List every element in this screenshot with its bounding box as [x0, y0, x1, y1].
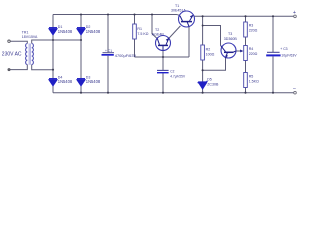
svg-text:30E451A: 30E451A [171, 8, 186, 12]
svg-text:T3: T3 [228, 32, 232, 36]
wire T2 base down to rail [162, 51, 164, 57]
wire T2 emitter to T1 base [169, 26, 181, 39]
wire C2 column upper [162, 57, 164, 70]
transistor T2 [156, 36, 171, 51]
diode D2 [77, 28, 85, 35]
svg-text:R2: R2 [206, 47, 211, 51]
svg-text:4700µF/63V: 4700µF/63V [115, 53, 137, 58]
svg-text:R5: R5 [249, 75, 254, 79]
wire AC top terminal to primary [10, 41, 27, 43]
svg-text:1.5KΩ: 1.5KΩ [249, 80, 259, 84]
svg-text:220Ω: 220Ω [249, 52, 258, 56]
wire T1 base down to rail [188, 26, 190, 57]
wire C1 column upper [107, 15, 109, 53]
svg-text:10µF/63V: 10µF/63V [281, 53, 297, 57]
wire R5 to bottom bus [245, 88, 247, 93]
wire T3 base to pot wiper [236, 50, 241, 52]
wire T3 emitter down and left [203, 58, 226, 71]
wire secondary top to node [32, 40, 81, 44]
terminal output minus [294, 91, 297, 94]
svg-text:1N5408: 1N5408 [58, 29, 73, 34]
wire branch to T3 collector [203, 26, 221, 46]
wire bus drop to T2 collector [152, 15, 157, 39]
wire bridge right column [80, 15, 82, 93]
svg-text:1N5408: 1N5408 [86, 29, 101, 34]
node bus R1 [133, 13, 135, 15]
node rail R3 [244, 15, 246, 17]
svg-text:4.7µF/25V: 4.7µF/25V [170, 74, 186, 78]
transformer TR1 [26, 44, 34, 65]
wire C3 column upper [272, 16, 274, 52]
svg-text:100Ω: 100Ω [206, 52, 215, 56]
svg-text:R1: R1 [137, 27, 142, 31]
node zener top [202, 69, 204, 71]
node bus C1 [107, 13, 109, 15]
svg-text:1N5408: 1N5408 [58, 79, 73, 84]
svg-text:ZC30B: ZC30B [207, 82, 219, 86]
wire R1 column lower [134, 39, 136, 57]
svg-text:3D360B: 3D360B [224, 37, 238, 41]
node AC cross left [52, 39, 54, 41]
svg-text:230V AC: 230V AC [2, 52, 22, 58]
svg-text:1N5408: 1N5408 [86, 79, 101, 84]
wire top bus [53, 15, 180, 17]
capacitor C3 [266, 52, 280, 56]
wire bridge left column [52, 15, 54, 93]
wire D5 to bottom bus [202, 89, 204, 93]
transistor T1 [179, 11, 195, 27]
zener D5 [198, 81, 208, 89]
svg-text:D5: D5 [207, 77, 212, 81]
node AC left bottom [52, 69, 54, 71]
node rail T2 base [162, 56, 164, 58]
node AC right [80, 39, 82, 41]
svg-text:18V/15VA: 18V/15VA [22, 35, 38, 39]
wire R1 column upper [134, 15, 136, 25]
diode D4 [49, 79, 57, 86]
node bottom C2 [162, 92, 164, 94]
svg-text:AGE4B: AGE4B [152, 32, 165, 36]
wire output rail [194, 15, 293, 17]
terminal output plus [294, 15, 297, 18]
wire R2 bottom to zener node [202, 60, 204, 82]
resistor R5 [244, 73, 248, 88]
wire R2 column upper [202, 16, 204, 45]
terminal 230V AC bottom [8, 69, 10, 71]
diode D1 [49, 28, 57, 35]
transistor T3 [221, 43, 237, 58]
resistor R2 [201, 45, 205, 60]
node bottom C1 [107, 92, 109, 94]
svg-text:+ C1: + C1 [105, 49, 112, 53]
svg-text:7.5 KΩ: 7.5 KΩ [137, 32, 148, 36]
node bottom D3 [80, 92, 82, 94]
pot wiper arrow [240, 50, 243, 53]
node rail R2 [202, 15, 204, 17]
wire divider column R3 top [245, 16, 247, 22]
wire R3 to R4 [245, 37, 247, 46]
wire secondary bottom to node [32, 65, 53, 70]
terminal 230V AC top [8, 40, 10, 42]
svg-text:C2: C2 [170, 70, 174, 74]
node bottom R5 [244, 92, 246, 94]
svg-text:220Ω: 220Ω [249, 29, 258, 33]
capacitor C1 [102, 53, 115, 56]
svg-text:T1: T1 [175, 4, 179, 8]
node bottom C3 [272, 92, 274, 94]
svg-text:+: + [293, 10, 296, 16]
capacitor C2 [157, 70, 169, 72]
wire C1 column lower [107, 56, 109, 93]
svg-text:R3: R3 [249, 24, 254, 28]
node branch T3 [202, 25, 204, 27]
resistor R4 preset [244, 46, 248, 61]
svg-text:TR1: TR1 [22, 31, 29, 35]
resistor R1 [133, 24, 137, 39]
node bus T2 drop [151, 13, 153, 15]
wire base rail y57 [135, 56, 190, 58]
wire C2 column lower [162, 73, 164, 93]
svg-text:+ C3: + C3 [280, 47, 287, 51]
svg-text:R4: R4 [249, 47, 254, 51]
node bus D2 [80, 13, 82, 15]
diode D3 [77, 79, 85, 86]
node bottom D5 [202, 92, 204, 94]
wire R4 to R5 [245, 61, 247, 73]
svg-text:–: – [293, 85, 296, 91]
wire AC bottom terminal to primary [10, 65, 27, 70]
node rail C3 [272, 15, 274, 17]
resistor R3 [244, 22, 248, 37]
wire bottom bus [53, 92, 294, 94]
wire C3 column lower [272, 57, 274, 93]
